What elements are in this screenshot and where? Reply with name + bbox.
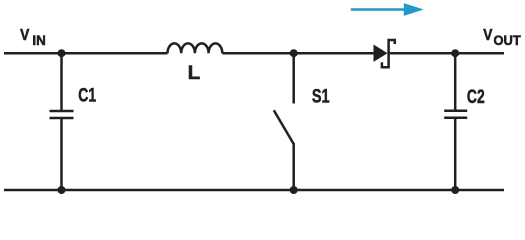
node: VOUT junction dot (451, 49, 459, 57)
node: bottom-left junction dot (58, 186, 66, 194)
svg-text:V: V (20, 27, 30, 44)
svg-text:IN: IN (32, 33, 45, 48)
node: VIN junction dot (58, 49, 66, 57)
wire: top rail middle (inductor to diode) (222, 52, 373, 55)
inductor L (168, 43, 223, 53)
node: switch top junction dot (290, 49, 298, 57)
svg-text:OUT: OUT (494, 33, 522, 48)
node: bottom-right junction dot (451, 186, 459, 194)
wire: bottom rail (4, 189, 504, 192)
capacitor C2 (444, 53, 467, 190)
switch S1 (274, 53, 294, 190)
svg-text:C2: C2 (467, 86, 485, 108)
node: bottom-middle junction dot (290, 186, 298, 194)
svg-text:L: L (188, 62, 201, 84)
schottky diode D1 (374, 40, 395, 67)
svg-text:C1: C1 (78, 85, 96, 107)
svg-text:S1: S1 (312, 86, 330, 108)
capacitor C1 (50, 53, 74, 190)
svg-text:V: V (483, 27, 493, 44)
wire: top rail left (VIN to inductor) (4, 52, 168, 55)
wire: top rail right (diode to VOUT) (390, 52, 504, 55)
blue current-flow arrow (351, 3, 424, 16)
